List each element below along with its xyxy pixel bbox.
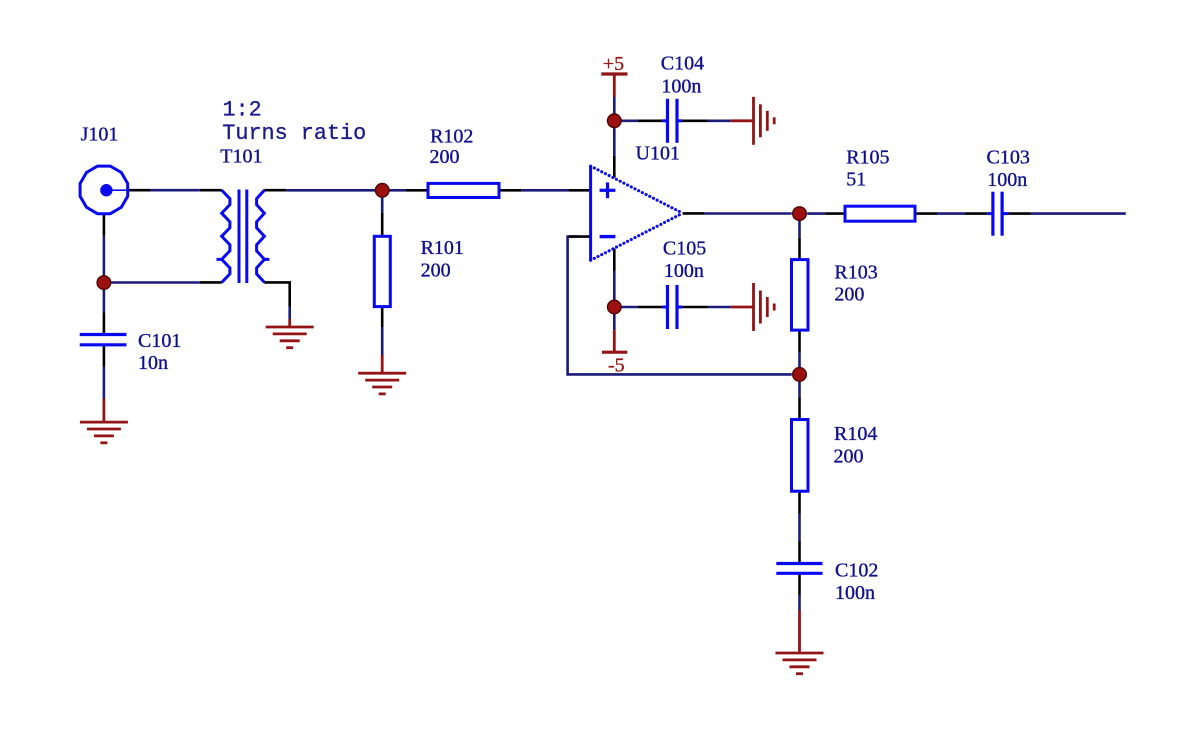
svg-text:R103: R103 <box>834 261 877 283</box>
svg-text:200: 200 <box>430 146 460 168</box>
svg-text:+5: +5 <box>603 53 624 75</box>
svg-text:T101: T101 <box>220 146 262 168</box>
svg-text:1:2: 1:2 <box>223 97 262 122</box>
svg-text:51: 51 <box>846 169 866 191</box>
svg-text:J101: J101 <box>81 123 119 145</box>
svg-text:C104: C104 <box>661 53 704 75</box>
svg-text:100n: 100n <box>835 582 875 604</box>
svg-text:200: 200 <box>834 445 864 467</box>
svg-text:R104: R104 <box>834 423 877 445</box>
svg-text:100n: 100n <box>661 75 701 97</box>
svg-text:U101: U101 <box>636 143 680 165</box>
svg-text:C101: C101 <box>138 330 181 352</box>
svg-text:-5: -5 <box>608 355 625 377</box>
svg-text:10n: 10n <box>138 352 168 374</box>
svg-text:C103: C103 <box>987 147 1030 169</box>
svg-text:C102: C102 <box>835 560 878 582</box>
svg-text:Turns ratio: Turns ratio <box>222 121 366 146</box>
svg-text:R101: R101 <box>421 237 464 259</box>
svg-text:R102: R102 <box>430 126 473 148</box>
svg-text:200: 200 <box>834 284 864 306</box>
svg-text:100n: 100n <box>664 260 704 282</box>
svg-text:200: 200 <box>421 259 451 281</box>
svg-text:R105: R105 <box>846 146 889 168</box>
svg-text:C105: C105 <box>663 238 706 260</box>
svg-text:100n: 100n <box>987 169 1027 191</box>
